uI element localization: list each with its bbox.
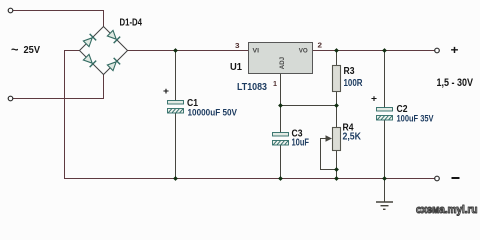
- svg-text:VO: VO: [299, 47, 308, 54]
- svg-text:10000uF 50V: 10000uF 50V: [188, 108, 238, 119]
- svg-text:схема.myl.ru: схема.myl.ru: [416, 204, 478, 216]
- svg-text:2: 2: [318, 41, 323, 50]
- svg-text:VI: VI: [253, 47, 260, 54]
- svg-text:ADJ: ADJ: [279, 57, 286, 70]
- svg-text:1,5 - 30V: 1,5 - 30V: [437, 77, 474, 89]
- svg-text:10uF: 10uF: [292, 138, 310, 149]
- svg-text:R3: R3: [344, 65, 355, 77]
- svg-text:D1-D4: D1-D4: [120, 18, 143, 29]
- svg-text:1: 1: [273, 79, 277, 88]
- svg-text:25V: 25V: [24, 45, 41, 56]
- svg-text:+: +: [371, 94, 377, 104]
- svg-text:+: +: [451, 43, 459, 57]
- svg-text:100uF 35V: 100uF 35V: [397, 114, 435, 125]
- svg-text:2,5K: 2,5K: [343, 132, 362, 143]
- svg-text:LT1083: LT1083: [237, 82, 267, 93]
- svg-text:~: ~: [11, 43, 19, 57]
- svg-text:3: 3: [235, 41, 240, 50]
- svg-text:100R: 100R: [344, 78, 364, 89]
- svg-text:U1: U1: [230, 61, 242, 73]
- svg-text:+: +: [163, 86, 169, 96]
